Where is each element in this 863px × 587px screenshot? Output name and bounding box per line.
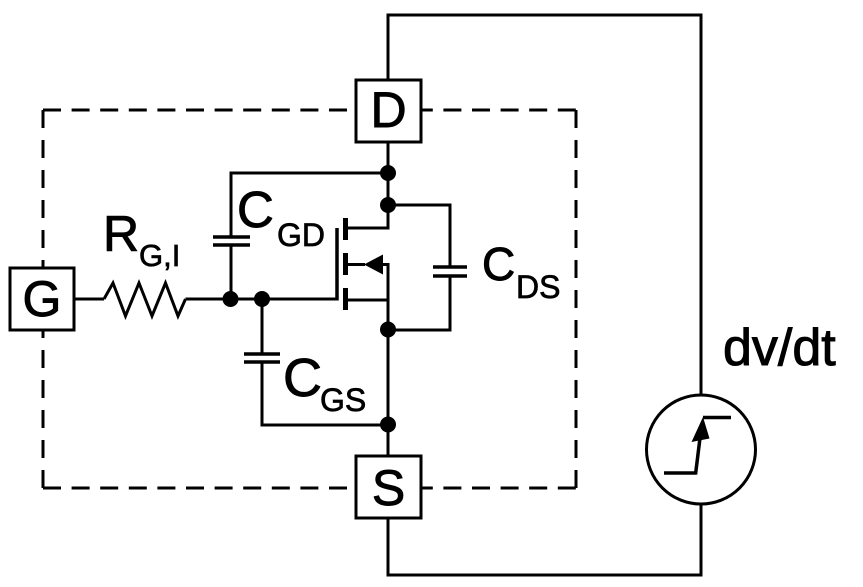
node drain junction 1 <box>380 165 396 181</box>
transistor Q1 body tap with arrow <box>346 255 390 275</box>
svg-text:S: S <box>372 460 405 516</box>
wire C_GD top horizontal to drain node <box>231 173 388 237</box>
capacitor C_GD <box>213 237 250 245</box>
wire right side down to dv/dt source <box>700 14 703 397</box>
svg-text:G,I: G,I <box>139 238 180 273</box>
node source junction 1 <box>380 322 396 338</box>
transistor Q1 drain tap <box>346 227 389 230</box>
resistor R_G,I zigzag <box>104 283 186 316</box>
terminal G box <box>10 268 74 330</box>
transistor Q1 MOSFET gate bar <box>335 228 339 301</box>
label C_GD <box>237 181 325 253</box>
terminal S box <box>356 456 421 518</box>
transistor Q1 MOSFET channel segments <box>343 218 348 310</box>
wire C_GS bottom to source node <box>262 362 388 425</box>
wire C_GS from gate node down <box>261 299 264 354</box>
capacitor C_GS <box>244 354 280 362</box>
svg-text:dv/dt: dv/dt <box>723 319 836 377</box>
wire C_GD bottom to gate node <box>230 245 233 299</box>
label C_GS <box>283 348 366 418</box>
wire bottom loop horizontal <box>387 574 703 577</box>
label R_G,I <box>103 206 180 273</box>
wire source vertical from body tap down to S box <box>387 265 390 457</box>
svg-text:GD: GD <box>277 217 325 253</box>
svg-text:GS: GS <box>320 382 366 418</box>
capacitor C_DS <box>433 267 467 276</box>
wire top loop horizontal <box>387 14 703 17</box>
svg-text:G: G <box>23 271 62 327</box>
dashed device boundary box <box>43 110 576 488</box>
svg-text:DS: DS <box>516 269 560 305</box>
wire gate from resistor to MOSFET gate bar <box>186 298 338 301</box>
label C_DS <box>482 238 560 305</box>
wire from top loop down to D terminal <box>387 14 390 81</box>
node source junction 2 <box>380 417 396 433</box>
wire from dv/dt source down to bottom loop <box>700 503 703 577</box>
node drain junction 2 <box>380 197 396 213</box>
node gate junction 2 <box>254 291 270 307</box>
label dv/dt <box>723 319 836 377</box>
transistor Q1 source tap <box>346 299 389 302</box>
svg-text:C: C <box>283 348 322 408</box>
svg-text:C: C <box>482 238 515 290</box>
dv/dt source step waveform <box>664 417 731 475</box>
svg-text:D: D <box>370 82 406 138</box>
wire from S terminal down to bottom loop <box>387 518 390 577</box>
dv/dt source circle <box>647 395 756 504</box>
wire C_DS bottom to source node <box>388 276 450 330</box>
svg-text:R: R <box>103 206 139 262</box>
wire gate lead from G box to resistor <box>74 298 104 301</box>
wire C_DS top from drain node <box>388 205 450 267</box>
node gate junction 1 <box>223 291 239 307</box>
wire drain vertical from D box to MOSFET drain tap <box>387 142 390 230</box>
terminal D box <box>356 80 421 142</box>
svg-text:C: C <box>237 181 274 238</box>
